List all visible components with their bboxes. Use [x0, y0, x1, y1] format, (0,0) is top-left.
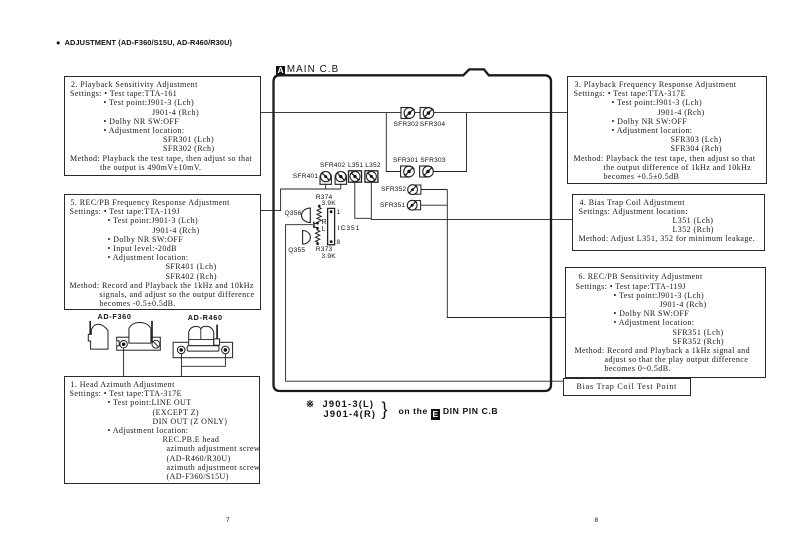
label node L: [322, 226, 326, 233]
note box 2 playback sensitivity: [64, 76, 261, 176]
transistor Q356: [301, 208, 310, 223]
wire R460 screws to box1: [181, 354, 225, 376]
label L352: [365, 162, 380, 169]
trimmer SFR303: [420, 166, 434, 177]
label Q356: [285, 210, 302, 217]
header bullet title: [56, 38, 232, 47]
label SFR401: [293, 173, 318, 180]
footnote J901: [306, 399, 374, 410]
head drawing AD-F360 assembly: [117, 321, 161, 350]
wire box5 to SFR401/402: [260, 184, 341, 210]
label node R: [322, 219, 327, 226]
head drawing AD-F360 small head: [88, 321, 108, 349]
label pin 1: [337, 209, 341, 216]
label pin 8: [337, 239, 341, 246]
label SFR303: [420, 157, 445, 164]
wire box2 to board to SFR trimmers to box3: [260, 112, 567, 114]
page number 8: [595, 517, 599, 524]
label IC351: [338, 225, 361, 232]
wire SFR352/351 to box6: [421, 190, 565, 318]
note box 5 rec/pb frequency response: [64, 194, 262, 310]
trimmer SFR301: [401, 166, 415, 177]
label SFR352: [381, 186, 406, 193]
trimmer SFR351: [407, 200, 420, 210]
trimmer SFR304: [420, 108, 434, 119]
wire L351/L352 to box4: [355, 182, 572, 219]
label SFR351: [380, 202, 405, 209]
label SFR402: [320, 162, 345, 169]
coil L351: [349, 171, 362, 182]
head drawing AD-R460 assembly: [173, 325, 233, 358]
label Q355: [288, 247, 305, 254]
label R373 value: [316, 246, 333, 253]
resistor R374: [317, 205, 321, 223]
transistor arrow at test point: [314, 222, 318, 229]
wire bias trap test point to box: [286, 225, 563, 382]
note box 1 head azimuth: [64, 376, 261, 484]
trimmer SFR402: [335, 172, 346, 185]
label R374 value: [316, 194, 333, 201]
note box bias trap coil test point: [563, 378, 691, 396]
trimmer SFR302: [401, 108, 415, 119]
node L junction: [316, 227, 319, 230]
note box 4 bias trap coil: [572, 194, 766, 251]
trimmer SFR401: [320, 172, 331, 185]
label A MAIN C.B: [276, 64, 339, 76]
label L351: [348, 162, 363, 169]
coil L352: [365, 171, 378, 182]
page number 7: [226, 517, 230, 524]
main C.B board outline: [274, 69, 552, 391]
resistor R373: [316, 228, 320, 245]
transistor Q355: [303, 231, 311, 245]
label SFR301: [393, 157, 418, 164]
wire loop SFR301/303: [386, 113, 466, 172]
node R junction: [316, 222, 319, 225]
IC351 package: [328, 208, 335, 244]
label AD-R460: [188, 313, 223, 322]
trimmer SFR352: [408, 185, 421, 195]
label SFR302: [394, 121, 419, 128]
label AD-F360: [98, 312, 132, 321]
note box 3 playback frequency response: [567, 76, 767, 184]
label SFR304: [420, 121, 445, 128]
wire F360 screw to box1: [123, 348, 125, 376]
note box 6 rec/pb sensitivity: [565, 267, 766, 378]
